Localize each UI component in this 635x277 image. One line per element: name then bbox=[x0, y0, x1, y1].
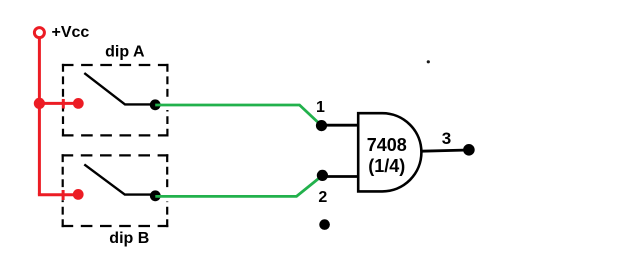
node: switch B pole red dot bbox=[73, 189, 84, 200]
wire: red branch to switch A pole bbox=[38, 102, 74, 105]
AND gate U1 7408 (1/4) body bbox=[358, 113, 421, 191]
dip A box right edge lower part bbox=[166, 110, 168, 137]
dip B box right edge lower part bbox=[166, 202, 168, 228]
wire: gate output lead pin 3 bbox=[422, 150, 469, 151]
node: output dot bbox=[463, 144, 475, 156]
switch SW-B enclosure dashed box dip B: top edge bbox=[62, 154, 169, 156]
svg-text:3: 3 bbox=[442, 129, 451, 148]
wire: pin 1 lead into gate bbox=[322, 124, 360, 127]
switch SW-B lever bbox=[84, 164, 155, 194]
svg-text:dip A: dip A bbox=[105, 43, 145, 60]
dip B box right edge upper part bbox=[166, 154, 168, 190]
dip A box bottom edge bbox=[62, 134, 169, 136]
svg-text:7408: 7408 bbox=[367, 135, 407, 155]
dip A box right edge upper part bbox=[166, 64, 168, 100]
switch SW-B contact dot bbox=[150, 190, 161, 201]
unconnected node dot below pin 2 bbox=[319, 219, 330, 230]
dip B box left edge lower part bbox=[62, 200, 64, 227]
svg-text:+Vcc: +Vcc bbox=[52, 24, 90, 41]
dip B box left edge upper part bbox=[62, 154, 64, 189]
svg-text:1: 1 bbox=[316, 99, 325, 116]
switch SW-A enclosure dashed box dip A: top edge bbox=[62, 64, 169, 66]
svg-text:(1/4): (1/4) bbox=[368, 156, 405, 176]
node: gate input pin 1 dot bbox=[316, 120, 327, 131]
dip A box left edge lower part bbox=[62, 109, 64, 137]
wire: red branch to switch B pole bbox=[38, 193, 74, 196]
crossing tick on branch B at box edge bbox=[62, 190, 65, 200]
wire: pin 2 lead into gate bbox=[322, 175, 359, 178]
svg-text:dip B: dip B bbox=[109, 230, 149, 247]
switch SW-A contact dot bbox=[150, 99, 161, 110]
node: gate input pin 2 dot bbox=[317, 170, 328, 181]
dip B box bottom edge bbox=[62, 225, 169, 227]
wire: green net from switch B to gate pin 2 bbox=[155, 176, 322, 197]
stray speck artifact bbox=[427, 60, 430, 63]
node: switch A pole red dot bbox=[73, 98, 84, 109]
junction: red dot on bus at branch A bbox=[34, 98, 45, 109]
crossing tick on branch A at box edge bbox=[62, 99, 65, 109]
switch SW-A lever bbox=[84, 73, 155, 104]
wire: red Vcc vertical bus bbox=[38, 38, 41, 195]
svg-text:2: 2 bbox=[318, 189, 327, 206]
dip A box left edge upper part bbox=[62, 64, 64, 99]
wire: green net from switch A to gate pin 1 bbox=[155, 105, 321, 126]
terminal +Vcc open circle bbox=[34, 28, 44, 38]
